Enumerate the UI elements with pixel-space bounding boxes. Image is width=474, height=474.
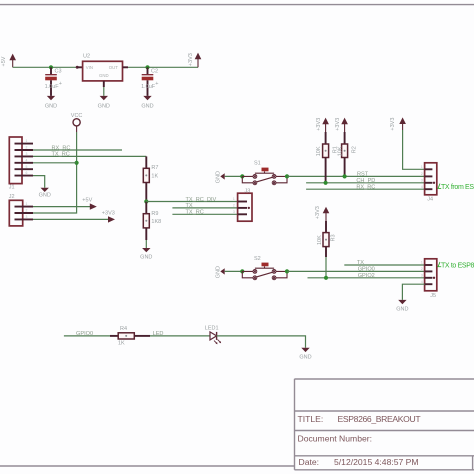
node label GPIO0 left — [76, 331, 93, 337]
wire TX_RC from J1 pin3 — [33, 155, 146, 157]
svg-text:4: 4 — [26, 158, 28, 162]
svg-text:1.0uF: 1.0uF — [45, 84, 60, 90]
wire U2 OUT to +3V3 — [128, 66, 198, 68]
ground GND below U2 — [98, 96, 110, 110]
svg-text:2: 2 — [421, 267, 423, 271]
svg-text:1: 1 — [26, 202, 28, 206]
title block frame — [295, 379, 474, 470]
svg-text:LED: LED — [153, 331, 164, 337]
resistor R3 — [315, 206, 337, 257]
svg-text:2: 2 — [26, 146, 28, 150]
svg-text:GND: GND — [99, 73, 109, 78]
svg-text:1: 1 — [233, 197, 235, 201]
wire RX_RC from J1 pin2 — [33, 149, 122, 151]
svg-text:TX: TX — [186, 203, 193, 209]
svg-text:Document Number:: Document Number: — [298, 433, 373, 443]
svg-text:1K: 1K — [118, 340, 125, 346]
svg-text:TX: TX — [357, 260, 364, 266]
svg-text:GND: GND — [216, 266, 222, 278]
svg-text:1.0uF: 1.0uF — [141, 84, 156, 90]
svg-text:GND: GND — [141, 104, 153, 110]
title block date value — [334, 457, 419, 467]
svg-text:GND: GND — [39, 192, 51, 198]
svg-text:J5: J5 — [430, 293, 436, 299]
svg-text:1: 1 — [421, 261, 423, 265]
resistor R1 — [316, 118, 339, 183]
supply +5V arrow right — [82, 197, 97, 209]
svg-text:+3V3: +3V3 — [188, 53, 194, 66]
svg-text:R7: R7 — [151, 165, 158, 171]
svg-text:C2: C2 — [151, 69, 158, 75]
svg-text:+5V: +5V — [1, 56, 7, 66]
svg-text:VIN: VIN — [86, 65, 93, 70]
svg-text:R4: R4 — [120, 326, 127, 332]
svg-text:GND: GND — [98, 104, 110, 110]
svg-text:3: 3 — [233, 210, 235, 214]
supply VCC symbol — [71, 113, 83, 132]
wire GPIO0 to R4 — [64, 335, 110, 337]
ground GND below J5 — [396, 300, 408, 313]
resistor R4 — [110, 326, 150, 346]
svg-text:J2: J2 — [9, 194, 15, 200]
wire TX_RC_DIV to J3 pin1 — [146, 201, 237, 203]
svg-text:10K: 10K — [317, 235, 323, 245]
svg-text:1K8: 1K8 — [151, 219, 161, 225]
connector J2 — [9, 194, 33, 226]
ground GND below C2 — [141, 96, 153, 110]
node junction S2 left — [240, 269, 244, 273]
wire LED1 to ground — [217, 336, 306, 348]
svg-text:GND: GND — [216, 171, 222, 183]
node junction S1 left — [240, 174, 244, 178]
svg-text:+3V3: +3V3 — [390, 118, 396, 131]
svg-text:+3V3: +3V3 — [102, 210, 115, 216]
wire GPIO2 to J5 pin3 — [308, 277, 425, 279]
svg-text:1: 1 — [26, 139, 28, 143]
wire U2 GND pin to ground — [103, 87, 105, 96]
svg-text:3: 3 — [26, 152, 28, 156]
title block text ESP8266_BREAKOUT — [338, 414, 422, 424]
node label GPIO0 right — [358, 267, 375, 273]
svg-text:2: 2 — [26, 209, 28, 213]
svg-text:5: 5 — [26, 165, 28, 169]
wire TX_RC to J3 pin3 — [172, 213, 237, 215]
node junction S1 right — [285, 174, 289, 178]
svg-text:Date:: Date: — [299, 457, 320, 467]
node label TX_RC mid — [186, 210, 204, 216]
svg-text:5/12/2015 4:48:57 PM: 5/12/2015 4:48:57 PM — [334, 457, 419, 467]
svg-text:R9: R9 — [151, 211, 158, 217]
wire R3 to GPIO2 — [325, 257, 327, 278]
svg-text:+: + — [59, 81, 62, 87]
node label TX to ESP8266 — [438, 262, 474, 269]
node junction R3 to GPIO2 — [324, 276, 328, 280]
frame bottom border — [0, 465, 295, 467]
title block text TITLE — [298, 414, 324, 424]
wire RST to J4 pin2 — [287, 175, 425, 177]
svg-text:3: 3 — [421, 178, 423, 182]
svg-text:J3: J3 — [245, 189, 251, 195]
svg-text:6: 6 — [26, 171, 28, 175]
wire CH_PD to J4 pin3 — [306, 182, 425, 184]
wire +3V3 to J4 pin1 — [403, 130, 425, 169]
node label TX — [186, 203, 193, 209]
svg-text:GPIO2: GPIO2 — [358, 273, 375, 279]
supply +5V symbol top-left — [1, 54, 16, 68]
svg-text:RST: RST — [357, 172, 369, 178]
svg-text:OUT: OUT — [109, 65, 118, 70]
ground GND below R9 — [140, 248, 152, 260]
svg-text:LED1: LED1 — [205, 326, 219, 332]
node label LED — [153, 331, 164, 337]
svg-text:2: 2 — [421, 172, 423, 176]
svg-text:GND: GND — [140, 254, 152, 260]
node junction at C2 tap — [145, 65, 149, 69]
wire TX to J3 pin2 — [172, 207, 237, 209]
supply +3V3 above J4 — [390, 117, 406, 130]
title block text Date — [299, 457, 320, 467]
ground GND left of S1 — [216, 171, 225, 183]
svg-text:TX to ESP8266: TX to ESP8266 — [441, 262, 474, 269]
svg-text:R3: R3 — [330, 234, 336, 241]
ground GND below LED wire — [299, 348, 311, 361]
wire GND to S1 — [225, 175, 243, 177]
connector J3 — [233, 189, 252, 222]
ground GND left of S2 — [216, 266, 225, 278]
svg-text:1: 1 — [421, 165, 423, 169]
wire +5V to U2 VIN — [13, 66, 77, 68]
frame top border — [0, 4, 474, 6]
svg-text:+3V3: +3V3 — [335, 118, 341, 131]
node label RX_RC right — [356, 184, 375, 190]
wire J1 pin4 to VCC — [33, 162, 77, 164]
svg-text:3: 3 — [26, 215, 28, 219]
node label TX_RC_DIV — [186, 197, 217, 203]
svg-text:RX_RC: RX_RC — [52, 145, 71, 151]
svg-text:+3V3: +3V3 — [315, 206, 321, 219]
node junction VCC with J1 pin4 wire — [75, 161, 79, 165]
connector J1 — [9, 137, 33, 191]
svg-text:TX from ESP8266: TX from ESP8266 — [441, 184, 474, 191]
svg-text:10K: 10K — [338, 146, 344, 156]
diode LED1 — [205, 326, 221, 345]
node label GPIO2 — [358, 273, 375, 279]
svg-text:2: 2 — [233, 204, 235, 208]
wire J2 pin1 to +5V arrow — [33, 206, 90, 208]
node junction R2 to RST — [343, 174, 347, 178]
svg-text:10K: 10K — [316, 146, 322, 156]
svg-text:TITLE:: TITLE: — [298, 414, 324, 424]
svg-text:S2: S2 — [254, 256, 261, 262]
node label RX_RC — [52, 145, 71, 151]
svg-text:GND: GND — [45, 104, 57, 110]
node junction at C3 tap — [49, 65, 53, 69]
capacitor C2 — [141, 67, 158, 96]
wire R9 to ground — [145, 240, 147, 248]
svg-text:4: 4 — [421, 280, 423, 284]
svg-text:S1: S1 — [254, 160, 261, 166]
ground GND below C3 — [45, 96, 57, 110]
svg-text:+3V3: +3V3 — [316, 118, 322, 131]
svg-text:GPIO0: GPIO0 — [76, 331, 93, 337]
resistor R2 — [335, 118, 358, 177]
svg-text:1K: 1K — [151, 173, 158, 179]
wire GND to S2 — [225, 270, 243, 272]
wire J1 pin6 to ground — [33, 176, 45, 188]
node junction S2 right — [285, 269, 289, 273]
svg-text:GND: GND — [299, 354, 311, 360]
ground GND below J1 — [39, 188, 51, 199]
svg-text:+: + — [155, 81, 158, 87]
svg-text:TX_RC_DIV: TX_RC_DIV — [186, 197, 217, 203]
supply +3V3 arrow right — [102, 210, 115, 222]
node label TX_RC — [52, 152, 70, 158]
resistor R7 — [143, 156, 158, 201]
svg-text:J4: J4 — [427, 196, 433, 202]
node label CH_PD — [356, 178, 375, 184]
wire J5 pin4 to ground — [402, 284, 424, 300]
capacitor C3 — [45, 67, 62, 96]
svg-text:TX_RC: TX_RC — [186, 210, 204, 216]
svg-text:GND: GND — [396, 307, 408, 313]
svg-text:3: 3 — [421, 273, 423, 277]
wire RX_RC to J4 pin4 — [306, 188, 425, 190]
svg-text:+5V: +5V — [82, 197, 92, 203]
svg-text:U2: U2 — [83, 53, 90, 59]
svg-text:TX_RC: TX_RC — [52, 152, 70, 158]
transistor-switch S1 pushbutton — [242, 160, 287, 184]
connector J5 — [421, 259, 437, 299]
wire J2 pin3 to +3V3 arrow — [33, 218, 108, 220]
svg-text:RX_RC: RX_RC — [356, 184, 375, 190]
supply +3V3 symbol top — [188, 53, 201, 68]
connector J4 — [421, 163, 437, 203]
transistor-switch S2 pushbutton — [242, 256, 287, 279]
svg-text:J1: J1 — [9, 185, 15, 191]
wire VCC vertical to J2 pin2 — [33, 132, 77, 213]
svg-text:4: 4 — [421, 185, 423, 189]
svg-text:GPIO0: GPIO0 — [358, 267, 375, 273]
wire TX to J5 pin1 — [344, 264, 424, 266]
wire R4 to LED1 — [150, 335, 210, 337]
node junction R1 to CH_PD — [324, 181, 328, 185]
resistor R9 — [143, 202, 161, 241]
wire GPIO0 to J5 pin2 — [287, 270, 425, 272]
title block text Document Number — [298, 433, 373, 443]
svg-text:ESP8266_BREAKOUT: ESP8266_BREAKOUT — [338, 414, 422, 424]
node junction TX_RC_DIV — [144, 199, 148, 203]
node label TX right — [357, 260, 364, 266]
svg-text:CH_PD: CH_PD — [356, 178, 375, 184]
op-amp U2 voltage regulator — [76, 53, 128, 87]
node label RST — [357, 172, 369, 178]
svg-text:C3: C3 — [55, 69, 62, 75]
svg-text:R2: R2 — [352, 146, 358, 153]
node label TX from ESP8266 — [438, 184, 474, 191]
